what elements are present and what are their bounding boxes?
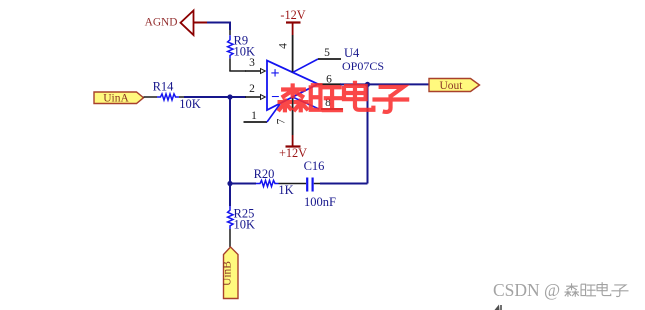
svg-text:Uout: Uout: [440, 80, 464, 92]
resistor R14: [144, 80, 201, 112]
svg-text:4: 4: [278, 43, 290, 49]
svg-text:R20: R20: [254, 167, 275, 181]
pin 1 of op-amp: [244, 104, 281, 122]
wire C16 to feedback column: [320, 183, 368, 185]
svg-text:UinB: UinB: [222, 261, 234, 286]
pin 8 of op-amp (offset null): [293, 97, 343, 109]
bottom edge text fragment: [495, 305, 502, 310]
watermark red 森旺电子: [278, 81, 410, 113]
svg-text:U4: U4: [344, 46, 360, 60]
svg-text:7: 7: [276, 118, 288, 124]
pin 5 of op-amp (offset null): [293, 47, 341, 72]
resistor R25: [228, 184, 255, 248]
wire junction down to R20 junction: [229, 97, 231, 184]
svg-text:AGND: AGND: [145, 17, 178, 29]
designator U4 OP07CS: [342, 46, 384, 73]
svg-text:10K: 10K: [234, 218, 256, 232]
resistor R9: [228, 30, 255, 71]
node junction pin2 column: [227, 94, 232, 99]
pin 7 of op-amp (bottom, V+): [276, 97, 293, 135]
wire feedback vertical: [367, 84, 369, 183]
svg-text:2: 2: [249, 83, 255, 95]
svg-text:UinA: UinA: [103, 93, 129, 105]
svg-text:-12V: -12V: [280, 8, 305, 22]
wire AGND horizontal to R9 column: [205, 23, 230, 31]
op-amp U4 triangle body: [267, 61, 318, 111]
svg-text:CSDN @: CSDN @: [493, 280, 560, 300]
ground AGND power port: [145, 11, 207, 36]
svg-text:1: 1: [251, 110, 257, 122]
wire R9 to pin3: [229, 70, 246, 72]
svg-text:+: +: [271, 65, 280, 82]
node output junction: [365, 82, 370, 87]
watermark CSDN @森旺电子: [493, 280, 629, 300]
capacitor C16: [297, 159, 336, 209]
svg-text:1K: 1K: [278, 183, 293, 197]
svg-text:5: 5: [324, 47, 330, 59]
port UinA: [94, 92, 144, 105]
svg-text:10K: 10K: [179, 97, 201, 111]
wire R14 to pin2 junction: [184, 96, 246, 98]
power +12V symbol: [279, 135, 307, 160]
port UinB: [222, 247, 239, 299]
wire pin6 to Uout port: [340, 83, 429, 85]
svg-text:R14: R14: [153, 80, 175, 94]
pin 2 of op-amp: [245, 83, 265, 99]
resistor R20: [230, 167, 297, 197]
svg-text:OP07CS: OP07CS: [342, 59, 384, 73]
port Uout: [429, 79, 480, 93]
pin 6 of op-amp (output): [318, 74, 341, 86]
node junction R20 column: [227, 181, 232, 186]
svg-text:3: 3: [249, 57, 255, 69]
power -12V symbol: [280, 8, 305, 35]
pin 3 of op-amp: [245, 57, 265, 73]
pin 4 of op-amp (top, V-): [278, 35, 293, 73]
svg-text:6: 6: [326, 74, 332, 86]
svg-text:C16: C16: [304, 159, 325, 173]
svg-text:100nF: 100nF: [304, 195, 336, 209]
